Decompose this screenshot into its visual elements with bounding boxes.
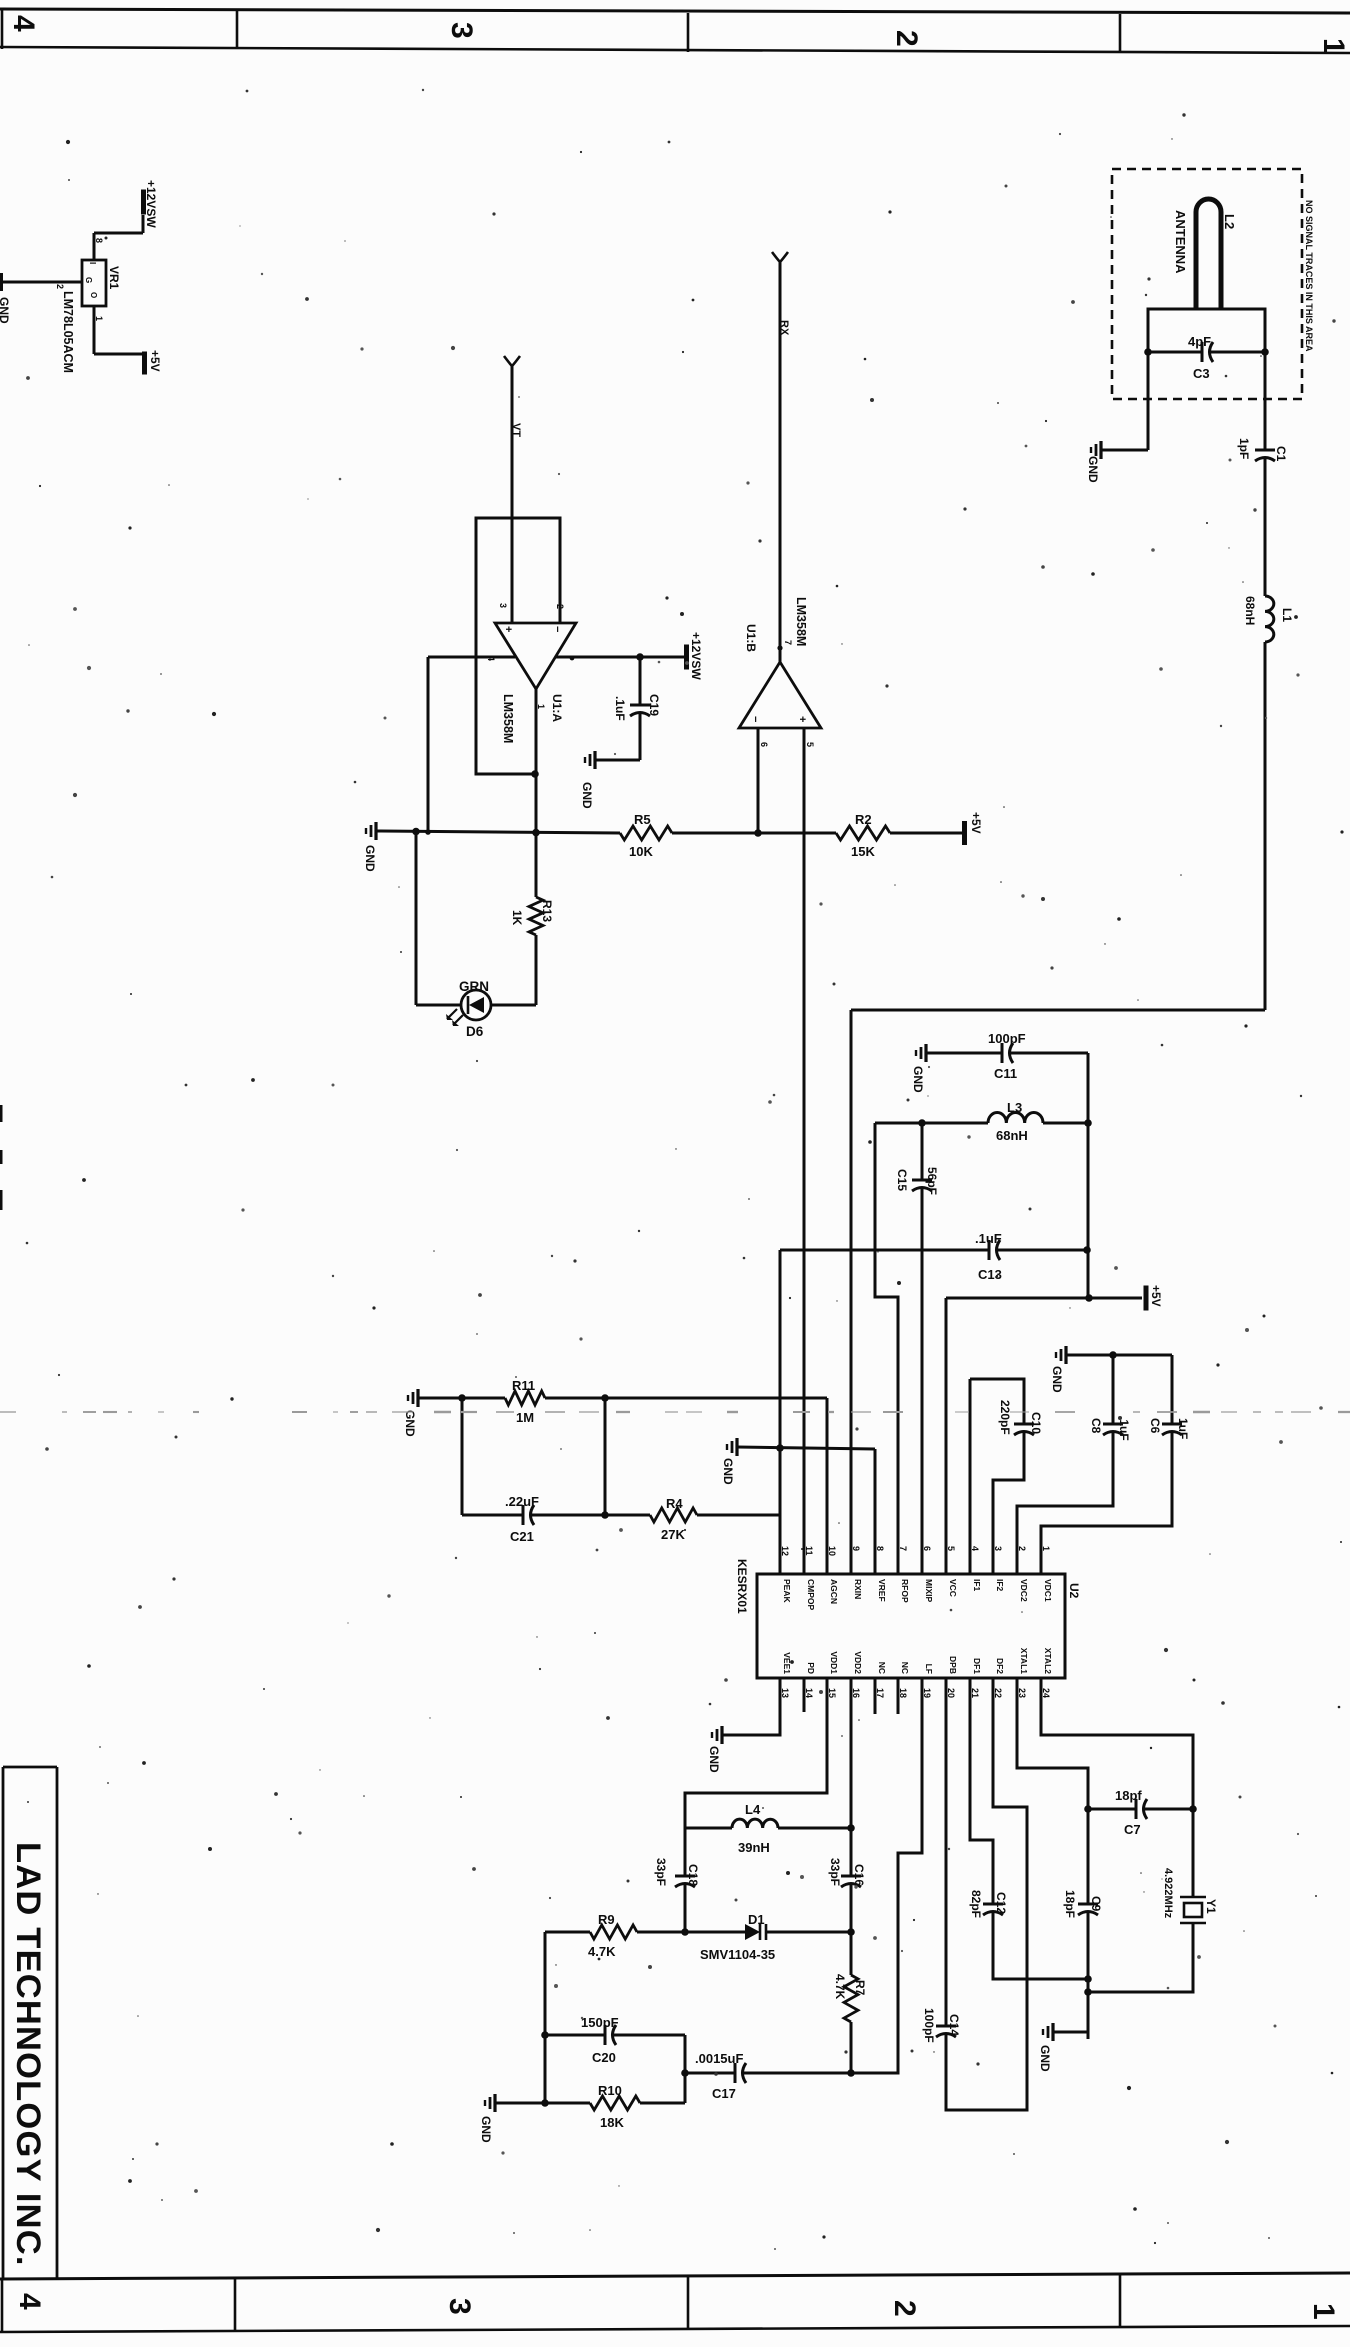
svg-text:+12VSW: +12VSW: [689, 632, 703, 680]
pin number 16 of U2: [851, 1688, 861, 1698]
wire ground row: [376, 831, 620, 833]
svg-text:VCC: VCC: [948, 1579, 958, 1597]
capacitor C20 150pF row: [545, 2025, 685, 2045]
wire C13 row: [780, 1250, 989, 1574]
label L1: [1280, 608, 1294, 622]
pin name VEE1 of U2: [782, 1652, 792, 1674]
wire antenna to ground: [1101, 352, 1148, 450]
junction C7 right: [1189, 1805, 1197, 1813]
capacitor C7 18pf row: [1088, 1799, 1193, 1819]
svg-text:4.7K: 4.7K: [588, 1944, 616, 1959]
wire R10 to C20 node: [640, 2035, 685, 2103]
svg-text:NC: NC: [900, 1662, 910, 1674]
svg-text:3: 3: [443, 2298, 476, 2315]
power symbol +5V mid: [1144, 1286, 1149, 1311]
svg-text:GRN: GRN: [459, 979, 489, 994]
label C12: [994, 1892, 1008, 1914]
value .1uF of C19: [613, 696, 627, 721]
junction C17 right at R7: [847, 2069, 855, 2077]
pin number 1 of U1:A: [536, 704, 546, 709]
svg-text:NC: NC: [877, 1662, 887, 1674]
svg-text:VDC2: VDC2: [1019, 1579, 1029, 1602]
label C16: [852, 1864, 866, 1886]
wire VDD2 pin16 line: [850, 1678, 853, 1828]
junction C8 top: [1109, 1351, 1117, 1359]
svg-text:MIXIP: MIXIP: [924, 1579, 934, 1602]
svg-text:C8: C8: [1089, 1418, 1103, 1434]
svg-text:PEAK: PEAK: [782, 1579, 792, 1603]
wire ground row to VREF: [737, 1447, 875, 1574]
svg-text:18pF: 18pF: [1063, 1890, 1077, 1918]
svg-text:AGCN: AGCN: [829, 1579, 839, 1604]
value 4.7K of R9: [588, 1944, 616, 1959]
wire R10 row left: [495, 2102, 590, 2105]
capacitor C13 .1uF: [989, 1240, 1087, 1260]
wire C21 to R4: [605, 1514, 650, 1517]
svg-text:220pF: 220pF: [998, 1400, 1012, 1435]
svg-text:R13: R13: [540, 900, 554, 922]
net label +12VSW at U1:A: [689, 632, 703, 680]
wire DF1 to C12: [970, 1678, 993, 1904]
label C11: [994, 1066, 1017, 1081]
capacitor C9 18pF: [1078, 1904, 1098, 2039]
svg-text:1: 1: [94, 316, 104, 321]
resistor R11 1M: [505, 1391, 545, 1405]
svg-text:1M: 1M: [516, 1410, 534, 1425]
svg-text:10: 10: [827, 1546, 837, 1556]
wire U1:A pin4 supply to ground rail: [428, 657, 515, 831]
value 39nH of L4: [738, 1840, 770, 1855]
svg-text:68nH: 68nH: [996, 1128, 1028, 1143]
label R5: [634, 812, 651, 827]
svg-text:4pF: 4pF: [1188, 334, 1211, 349]
svg-text:2: 2: [888, 2300, 921, 2317]
value 18pF of C9: [1063, 1890, 1077, 1918]
capacitor C15 56pF: [912, 1123, 932, 1574]
resistor R7 4.7K: [844, 1932, 858, 2073]
label R2: [855, 812, 872, 827]
label C18: [686, 1864, 700, 1886]
svg-text:C17: C17: [712, 2086, 736, 2101]
svg-text:.22uF: .22uF: [505, 1494, 539, 1509]
wire LF pin19 path: [851, 1678, 922, 2073]
net label +5V at VR1: [148, 350, 162, 372]
pin number 9 of U2: [851, 1546, 861, 1551]
zone number 2 top: [890, 30, 923, 47]
svg-text:GND: GND: [0, 297, 11, 324]
zone number 4 bottom: [13, 2293, 46, 2310]
net label GND at R10: [479, 2116, 493, 2143]
pin number 8 of U2: [875, 1546, 885, 1551]
svg-text:D6: D6: [466, 1024, 484, 1039]
svg-text:U2: U2: [1067, 1583, 1081, 1599]
svg-text:+5V: +5V: [148, 350, 162, 372]
svg-text:2: 2: [890, 30, 923, 47]
pin name DF2 of U2: [995, 1658, 1005, 1674]
pin number 6 of U2: [922, 1546, 932, 1551]
svg-text:27K: 27K: [661, 1527, 685, 1542]
svg-text:+: +: [796, 716, 808, 722]
net label GND at crystal: [1038, 2045, 1052, 2072]
svg-text:5: 5: [805, 742, 815, 747]
svg-text:XTAL2: XTAL2: [1043, 1648, 1053, 1675]
junction ground row at PEAK line: [776, 1444, 784, 1452]
inductor L4 39nH: [732, 1819, 778, 1828]
svg-text:150pF: 150pF: [581, 2015, 619, 2030]
svg-text:C9: C9: [1089, 1896, 1103, 1912]
wire C8 C6 ground row: [1066, 1354, 1172, 1357]
crystal Y1 4.922MHz: [1088, 1897, 1206, 1992]
pin number 7 of U2: [898, 1546, 908, 1551]
pin name RFOP of U2: [900, 1579, 910, 1603]
pin 17 NC stub: [874, 1678, 877, 1714]
svg-text:R4: R4: [666, 1496, 683, 1511]
wire U1:B pin 6 to row: [757, 728, 760, 833]
pin number 2 of VR1: [55, 284, 65, 289]
junction C12 at crystal net: [1084, 1975, 1092, 1983]
value 150pF of C20: [581, 2015, 619, 2030]
resistor R9 4.7K: [545, 1925, 685, 1939]
resistor R5 10K: [620, 826, 672, 840]
wire tank left leg to RFOP: [875, 1123, 898, 1574]
wire U1:A pin8 supply to +12VSW: [556, 656, 684, 661]
svg-text:1uF: 1uF: [1176, 1418, 1190, 1439]
svg-text:GND: GND: [1050, 1366, 1064, 1393]
wire VT to U1:A pin 3: [511, 366, 514, 623]
value 82pF of C12: [969, 1890, 983, 1918]
label C6: [1148, 1418, 1162, 1434]
power symbol +12VSW at VR1: [141, 190, 146, 234]
capacitor C14 100pF: [936, 1678, 1027, 2110]
svg-text:DF1: DF1: [972, 1658, 982, 1674]
net label GND at C8 C6: [1050, 1366, 1064, 1393]
wire LED to ground rail: [416, 831, 461, 1005]
svg-text:15K: 15K: [851, 844, 875, 859]
pin number 3 of U2: [993, 1546, 1003, 1551]
IC U2 KESRX01 body: [757, 1574, 1065, 1678]
svg-text:+: +: [502, 626, 514, 632]
note NO SIGNAL TRACES IN THIS AREA: [1304, 200, 1314, 352]
pin name XTAL1 of U2: [1019, 1648, 1029, 1675]
pin 14 PD stub: [803, 1678, 806, 1712]
svg-text:4: 4: [7, 15, 40, 32]
op-amp U1:A triangle: [495, 623, 576, 689]
svg-text:C18: C18: [686, 1864, 700, 1886]
pin number 15 of U2: [827, 1688, 837, 1698]
svg-text:R5: R5: [634, 812, 651, 827]
pin name VDC2 of U2: [1019, 1579, 1029, 1602]
label R9: [598, 1912, 615, 1927]
label U1:A: [550, 694, 564, 722]
svg-text:82pF: 82pF: [969, 1890, 983, 1918]
value 4pF of C3: [1188, 334, 1211, 349]
svg-text:39nH: 39nH: [738, 1840, 770, 1855]
value 18K of R10: [600, 2115, 624, 2130]
svg-text:U1:B: U1:B: [744, 624, 758, 652]
pin number 22 of U2: [993, 1688, 1003, 1698]
capacitor C6 1uF: [1041, 1355, 1182, 1574]
svg-text:C16: C16: [852, 1864, 866, 1886]
label KESRX01: [735, 1559, 749, 1614]
value 1K of R13: [510, 910, 524, 926]
label C10: [1029, 1412, 1043, 1434]
wire U1:A output pin 1: [535, 689, 538, 897]
value 33pF of C18: [654, 1858, 668, 1886]
value 100pF of C11: [988, 1031, 1026, 1046]
LED D6: [461, 990, 491, 1020]
capacitor C17 .0015uF row: [685, 2063, 851, 2083]
label C21: [510, 1529, 534, 1544]
svg-text:C15: C15: [895, 1169, 909, 1191]
svg-text:VDD2: VDD2: [853, 1651, 863, 1674]
svg-text:CMPOP: CMPOP: [806, 1579, 816, 1611]
value 1M of R11: [516, 1410, 534, 1425]
pin number 4 of U1:A: [486, 656, 496, 661]
capacitor C12 82pF: [983, 1904, 1088, 1979]
power symbol +12VSW at U1:A: [684, 645, 689, 670]
label U1:B: [744, 624, 758, 652]
svg-text:1: 1: [1317, 38, 1350, 55]
pin name PEAK of U2: [782, 1579, 792, 1603]
svg-text:12: 12: [780, 1546, 790, 1556]
value .1uF of C13: [975, 1231, 1002, 1246]
svg-text:4: 4: [13, 2293, 46, 2310]
dashed keepout box: [1112, 169, 1302, 399]
wire R11 row: [418, 1397, 505, 1400]
junction LED return: [412, 828, 420, 836]
svg-text:5: 5: [946, 1546, 956, 1551]
wire VR1 output to +5V: [94, 306, 143, 354]
svg-text:1: 1: [1041, 1546, 1051, 1551]
svg-text:C3: C3: [1193, 366, 1210, 381]
svg-text:LM358M: LM358M: [501, 694, 515, 743]
ground near U2 pin 8: [727, 1438, 737, 1456]
pin name XTAL2 of U2: [1043, 1648, 1053, 1675]
wire R2 to +5V: [890, 832, 962, 835]
svg-text:3: 3: [993, 1546, 1003, 1551]
pin number 12 of U2: [780, 1546, 790, 1556]
net label GND main row: [363, 845, 377, 872]
pin name VCC of U2: [948, 1579, 958, 1597]
pin number 5 of U1:B: [805, 742, 815, 747]
pin number 21 of U2: [970, 1688, 980, 1698]
svg-text:10K: 10K: [629, 844, 653, 859]
svg-text:8: 8: [875, 1546, 885, 1551]
svg-text:PD: PD: [806, 1662, 816, 1674]
ground at C8 C6 row: [1056, 1346, 1066, 1364]
svg-text:33pF: 33pF: [828, 1858, 842, 1886]
ground at antenna: [1091, 441, 1101, 459]
pin name VREF of U2: [877, 1579, 887, 1602]
svg-text:GND: GND: [1086, 456, 1100, 483]
svg-text:XTAL1: XTAL1: [1019, 1648, 1029, 1675]
label C3: [1193, 366, 1210, 381]
capacitor C19 .1uF: [630, 657, 650, 760]
wire C21 left leg: [461, 1398, 464, 1515]
junction antenna box right: [1261, 348, 1269, 356]
resistor R13 1K: [529, 897, 543, 935]
capacitor C3 4pF row: [1148, 342, 1265, 362]
label L2: [1222, 214, 1237, 229]
svg-text:LM358M: LM358M: [794, 597, 808, 646]
svg-text:NO SIGNAL TRACES IN THIS AREA: NO SIGNAL TRACES IN THIS AREA: [1304, 200, 1314, 352]
svg-text:ANTENNA: ANTENNA: [1173, 210, 1188, 274]
value label LM358M of U1:B: [794, 597, 808, 646]
svg-text:6: 6: [922, 1546, 932, 1551]
label L4: [745, 1802, 761, 1817]
ground at crystal net: [1043, 2023, 1053, 2041]
pin number 11 of U2: [804, 1546, 814, 1556]
pin name IF2 of U2: [995, 1579, 1005, 1592]
pin number 2 of U2: [1017, 1546, 1027, 1551]
label C19: [647, 694, 661, 716]
net label RX: [778, 320, 790, 336]
pin name RXIN of U2: [853, 1579, 863, 1599]
wire R5 to R2: [672, 832, 836, 835]
value .1uF of C8: [1117, 1416, 1131, 1441]
zone number 1 top: [1317, 38, 1350, 55]
junction tank at rail: [1084, 1119, 1092, 1127]
label R4: [666, 1496, 683, 1511]
pin number 24 of U2: [1041, 1688, 1051, 1698]
svg-text:DPB: DPB: [948, 1656, 958, 1674]
svg-text:VEE1: VEE1: [782, 1652, 792, 1674]
svg-text:R9: R9: [598, 1912, 615, 1927]
wire U1:A feedback pin2 loop: [476, 518, 560, 774]
svg-text:9: 9: [851, 1546, 861, 1551]
wire +5V row: [946, 1298, 1142, 1574]
value label LM78L05ACM: [61, 291, 75, 373]
svg-text:C14: C14: [947, 2014, 961, 2036]
label Y1: [1204, 1899, 1218, 1914]
net label VT: [510, 423, 522, 437]
wire VR1 ground pin to GND: [2, 281, 82, 284]
wire C19 to ground: [595, 759, 640, 762]
net label GND at antenna: [1086, 456, 1100, 483]
junction C21 right: [601, 1511, 609, 1519]
label R7: [853, 1980, 867, 1996]
svg-text:VDC1: VDC1: [1043, 1579, 1053, 1602]
junction antenna box left: [1144, 348, 1152, 356]
junction U1:A output at row: [532, 829, 540, 837]
wire R4 to PEAK: [697, 1514, 780, 1517]
signal arrow RX: [772, 252, 788, 262]
pin 18 NC stub: [897, 1678, 900, 1714]
svg-text:GND: GND: [580, 782, 594, 809]
label C9: [1089, 1896, 1103, 1912]
power symbol +5V at row: [962, 821, 967, 845]
pin name VDD2 of U2: [853, 1651, 863, 1674]
wire L4 right lead to pin16 line: [778, 1827, 851, 1830]
junction C7 left: [1084, 1805, 1092, 1813]
label C17: [712, 2086, 736, 2101]
capacitor C18 33pF: [675, 1828, 695, 1932]
wire U1:B pin 5 to U2 pin 11: [803, 728, 806, 1574]
value 33pF of C16: [828, 1858, 842, 1886]
wire C21 right leg: [604, 1398, 607, 1515]
net label +12VSW at VR1: [144, 180, 158, 228]
value SMV1104-35 of D1: [700, 1947, 775, 1962]
junction D1 anode node: [681, 1928, 689, 1936]
value 15K of R2: [851, 844, 875, 859]
label C1: [1274, 446, 1288, 462]
net label GND near pin 8: [721, 1458, 735, 1485]
ground at VR1 (edge of sheet): [0, 273, 11, 324]
svg-text:LAD TECHNOLOGY INC.: LAD TECHNOLOGY INC.: [9, 1842, 47, 2267]
diode D1 SMV1104-35: [685, 1924, 851, 1940]
pin number 23 of U2: [1017, 1688, 1027, 1698]
pin name PD of U2: [806, 1662, 816, 1674]
wire VR1 input to +12VSW: [94, 233, 143, 260]
pin number 6 of U1:B: [759, 742, 769, 747]
ground symbol main row: [366, 822, 376, 840]
svg-text:L3: L3: [1007, 1100, 1022, 1115]
label C15: [895, 1169, 909, 1191]
resistor R10 18K: [590, 2096, 640, 2110]
svg-text:C1: C1: [1274, 446, 1288, 462]
resistor R4 27K: [650, 1508, 697, 1522]
zone number 4 top: [7, 15, 40, 32]
net label GND at C19: [580, 782, 594, 809]
voltage regulator VR1 LM78L05ACM body: [82, 260, 106, 306]
svg-text:I: I: [88, 262, 97, 264]
pin name IF1 of U2: [972, 1579, 982, 1592]
net label +5V mid: [1149, 1285, 1163, 1307]
zone number 1 bottom: [1307, 2303, 1340, 2320]
svg-text:+5V: +5V: [1149, 1285, 1163, 1307]
label R11: [512, 1378, 535, 1393]
resistor R2 15K: [836, 826, 890, 840]
value 220pF of C10: [998, 1400, 1012, 1435]
svg-text:C12: C12: [994, 1892, 1008, 1914]
value .22uF of C21: [505, 1494, 539, 1509]
wire tank row: [875, 1122, 988, 1125]
value 10K of R5: [629, 844, 653, 859]
svg-text:1: 1: [536, 704, 546, 709]
svg-text:100pF: 100pF: [988, 1031, 1026, 1046]
svg-text:C10: C10: [1029, 1412, 1043, 1434]
svg-text:7: 7: [898, 1546, 908, 1551]
svg-text:68nH: 68nH: [1243, 596, 1257, 625]
wire L4 left lead: [685, 1827, 732, 1830]
svg-text:DF2: DF2: [995, 1658, 1005, 1674]
wire R13 to LED: [491, 935, 536, 1005]
label GRN: [459, 979, 489, 994]
svg-text:C21: C21: [510, 1529, 534, 1544]
wire R9 left leg down: [544, 1932, 547, 2103]
ground at R11: [408, 1389, 418, 1407]
net label GND at VEE1: [707, 1746, 721, 1773]
antenna L2 loop: [1196, 199, 1221, 309]
svg-text:L1: L1: [1280, 608, 1294, 622]
svg-text:1K: 1K: [510, 910, 524, 926]
pin number 2 of U1:A: [555, 604, 565, 609]
svg-text:100pF: 100pF: [922, 2008, 936, 2043]
value 27K of R4: [661, 1527, 685, 1542]
svg-text:RXIN: RXIN: [853, 1579, 863, 1599]
signal arrow VT: [504, 356, 520, 366]
capacitor C16 33pF: [841, 1828, 861, 1932]
svg-text:.1uF: .1uF: [975, 1231, 1002, 1246]
wire VDD1 to L4 node: [685, 1678, 827, 1828]
junction C20 left: [541, 2031, 549, 2039]
label C7: [1124, 1822, 1141, 1837]
svg-text:R7: R7: [853, 1980, 867, 1996]
junction +5V row at rail: [1085, 1294, 1093, 1302]
svg-text:LF: LF: [924, 1664, 934, 1674]
label R13: [540, 900, 554, 922]
svg-text:6: 6: [759, 742, 769, 747]
